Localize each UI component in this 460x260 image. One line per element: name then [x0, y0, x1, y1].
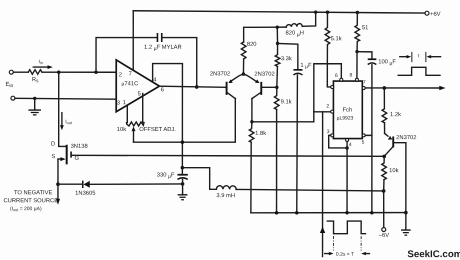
wire 330uF node to 3.9mH: [182, 168, 216, 190]
wire feedback cap net: [96, 38, 157, 73]
ground 330uF: [182, 180, 184, 195]
terminal -6V: [382, 227, 386, 231]
wire pin1 drop: [126, 105, 128, 122]
wire pin7 output: [365, 87, 440, 89]
resistor 51: [355, 12, 360, 51]
node rail-51 junction: [356, 11, 359, 14]
svg-text:3: 3: [117, 101, 120, 107]
node gnd 100uF: [370, 211, 373, 214]
wire rail to 820uH: [302, 12, 315, 26]
wire RN to op-amp pin2: [42, 71, 116, 73]
op-amp U1 u741C: [116, 60, 159, 112]
node gnd 1uF: [295, 211, 298, 214]
diode 1N3605: [58, 183, 83, 185]
svg-text:1: 1: [326, 80, 329, 86]
wire Q2 base: [262, 86, 277, 88]
wire 10k to -6V: [383, 180, 385, 228]
label trigger arrow: [320, 227, 325, 233]
wire Q3 base to ground: [394, 143, 406, 213]
svg-text:6: 6: [161, 87, 164, 93]
node output-1.2k: [383, 86, 387, 90]
wire pin4 loop down to 330uF: [153, 64, 183, 175]
wire +6V top rail: [133, 11, 425, 13]
wire pin5 to 100uF line: [365, 134, 372, 136]
label to negative current source: [57, 184, 59, 199]
pin 7: [362, 86, 365, 89]
svg-text:Fch: Fch: [343, 107, 353, 113]
node Q2 collector net: [250, 120, 253, 123]
pin 6: [340, 78, 343, 81]
terminal +6V: [425, 11, 429, 15]
wire pin4 to ground bus: [346, 142, 348, 213]
svg-text:4: 4: [349, 142, 352, 148]
svg-text:7: 7: [363, 79, 366, 85]
wire pin5 drop: [142, 93, 144, 122]
svg-text:1.2k: 1.2k: [390, 112, 401, 118]
pin 2: [331, 110, 334, 113]
svg-text:S: S: [51, 154, 55, 160]
pin 1: [331, 85, 334, 88]
waveform 0.2s square wave: [327, 221, 365, 234]
wire pin7 supply drop: [132, 11, 134, 70]
capacitor 100uF: [368, 58, 377, 60]
pin 5: [362, 134, 365, 137]
wire source drop: [57, 159, 59, 184]
wire pin8: [356, 52, 358, 79]
wire 100uF to ground bus: [371, 65, 373, 213]
node gnd pins3/4: [345, 211, 348, 214]
wire pin3-pin4 tie: [329, 135, 347, 148]
node input-Iout: [57, 71, 60, 74]
node fb-wiper junction: [181, 140, 185, 144]
svg-text:µL9923: µL9923: [337, 115, 354, 121]
node feedback-input: [94, 71, 97, 74]
svg-text:3N138: 3N138: [71, 144, 88, 150]
svg-text:D: D: [51, 142, 55, 148]
wire 1.8k to ground bus: [250, 142, 252, 213]
svg-text:G: G: [74, 156, 79, 162]
svg-text:7: 7: [129, 71, 132, 77]
wire 820uH to node A: [277, 26, 286, 28]
resistor 9.1k: [274, 87, 279, 109]
capacitor 1.2uF MYLAR: [156, 33, 158, 42]
node B (3.3k top / 1uF tap): [276, 42, 279, 45]
ground main: [405, 213, 407, 230]
svg-text:2N3702: 2N3702: [254, 72, 274, 78]
svg-text:0.2s = T: 0.2s = T: [336, 252, 354, 258]
wire gate long run: [72, 154, 384, 157]
svg-text:5: 5: [138, 91, 141, 97]
wire -6V rail: [236, 189, 384, 191]
node emitters common: [242, 72, 245, 75]
wire node A to 3.3k: [276, 27, 278, 43]
resistor 820: [241, 42, 246, 59]
wire node A to 820 resistor: [244, 27, 278, 42]
svg-text:10k: 10k: [389, 168, 398, 174]
wire pin2 tap: [314, 111, 331, 113]
resistor 3.3k: [275, 43, 280, 66]
svg-text:1.8k: 1.8k: [255, 131, 266, 137]
wire 820 to emitter node: [242, 59, 244, 74]
svg-text:2: 2: [119, 72, 122, 78]
node 330uF top: [181, 166, 185, 170]
svg-text:5: 5: [362, 140, 365, 146]
node 330uF bottom / diode: [181, 182, 185, 186]
svg-text:OFFSET ADJ.: OFFSET ADJ.: [139, 127, 176, 133]
svg-text:1N3605: 1N3605: [75, 191, 95, 197]
node pin3/4: [345, 146, 348, 149]
pin 3: [331, 134, 334, 137]
svg-text:5.1k: 5.1k: [331, 36, 342, 42]
terminal Ein bottom: [11, 96, 15, 100]
resistor 10k: [382, 156, 387, 179]
wire cross-couple to 5.1k / pin2: [252, 64, 341, 122]
node source junction: [56, 182, 60, 186]
svg-text:3.9 mH: 3.9 mH: [216, 193, 235, 199]
IC U2 flip-flop uL9923: [333, 81, 362, 139]
svg-text:2: 2: [326, 103, 329, 109]
svg-text:3: 3: [327, 129, 330, 135]
svg-text:1: 1: [123, 100, 126, 106]
node gnd Q3 base: [404, 211, 408, 215]
wire pin1 tap: [327, 64, 330, 87]
wire 3.3k to Q2 base node: [276, 67, 279, 88]
waveform t pulse top right: [400, 56, 409, 58]
wire node to 100uF: [357, 52, 372, 59]
capacitor 1uF: [293, 69, 302, 71]
resistor 1.8k: [249, 122, 254, 142]
pin 8: [355, 78, 358, 81]
svg-text:8: 8: [350, 72, 353, 78]
resistor RN: [28, 70, 42, 75]
inductor 3.9mH: [216, 186, 236, 190]
svg-text:2N3702: 2N3702: [210, 71, 230, 77]
wire input top: [13, 71, 28, 73]
svg-text:9.1k: 9.1k: [281, 99, 292, 105]
node 51 bottom: [355, 50, 358, 53]
node Q2 base: [275, 86, 278, 89]
terminal Ein top: [9, 70, 13, 74]
ground input: [34, 98, 36, 109]
node gate/Q3 collector/10k: [382, 155, 386, 159]
svg-text:820: 820: [247, 42, 257, 48]
node rail-820uH junction: [314, 10, 317, 13]
node output-feedback: [195, 85, 199, 89]
svg-text:CURRENT SOURCE: CURRENT SOURCE: [3, 198, 58, 204]
svg-text:µ741C: µ741C: [122, 81, 139, 87]
wire Iout drop to MOSFET drain: [59, 72, 66, 146]
svg-text:10k: 10k: [117, 127, 126, 133]
node A (tank top): [276, 26, 279, 29]
potentiometer 10k OFFSET ADJ: [127, 122, 145, 126]
wire pin2 annotation drop: [322, 112, 324, 257]
inductor 820uH: [286, 24, 302, 28]
wire 1uF to ground bus: [296, 75, 299, 213]
label Iout arrow: [61, 113, 63, 127]
wire ground bus: [251, 212, 406, 214]
wire wiper to Q1 collector: [133, 98, 235, 142]
wire input bottom to pin3: [15, 97, 116, 100]
svg-text:3.3k: 3.3k: [281, 56, 292, 62]
pin 4: [346, 139, 349, 142]
svg-text:TO NEGATIVE: TO NEGATIVE: [14, 190, 53, 196]
svg-text:2N3702: 2N3702: [396, 135, 416, 141]
svg-text:+6V: +6V: [430, 12, 441, 18]
wire node B to 1uF: [278, 43, 298, 69]
node rail-5.1k junction: [326, 11, 329, 14]
capacitor 330uF: [177, 174, 187, 176]
resistor 5.1k: [325, 12, 330, 64]
resistor 1.2k: [382, 88, 387, 123]
label Iin arrow: [33, 66, 49, 68]
node -6V / 10k: [382, 189, 386, 193]
node gnd 9.1k: [275, 211, 278, 214]
svg-text:SeekIC.com: SeekIC.com: [407, 249, 460, 260]
wire 9.1k to ground bus: [276, 109, 278, 212]
wire Q2 collector to cross-couple: [251, 99, 253, 122]
svg-text:6: 6: [335, 73, 338, 79]
node input ground: [33, 97, 36, 100]
wire 1.2k to Q3 emitter: [383, 123, 385, 134]
svg-text:51: 51: [362, 25, 368, 31]
svg-text:–6V: –6V: [379, 233, 389, 239]
wire op-amp output: [159, 86, 225, 87]
